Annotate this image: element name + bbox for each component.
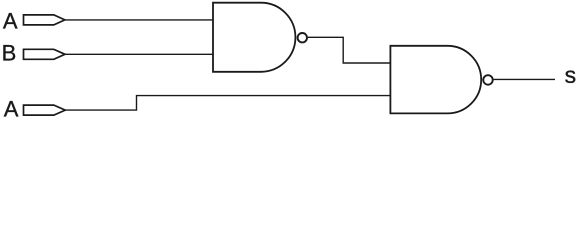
nand gate U1 inversion bubble: [298, 33, 307, 42]
input port A (top): [24, 15, 65, 25]
wire A (bottom) to U2 pin 2: [65, 96, 390, 111]
wire A to U1 pin 1: [65, 19, 214, 21]
input port B: [24, 49, 66, 59]
svg-text:B: B: [2, 40, 17, 65]
wire B to U1 pin 2: [65, 53, 214, 55]
nand gate U2 body: [390, 46, 481, 114]
wire U1 output to U2 pin 1: [308, 37, 390, 63]
svg-text:s: s: [565, 62, 577, 88]
svg-text:A: A: [4, 97, 19, 122]
wire U2 output to s: [494, 78, 555, 80]
input port A (bottom): [24, 105, 66, 115]
svg-text:A: A: [3, 8, 18, 33]
nand gate U2 inversion bubble: [483, 75, 493, 85]
nand gate U1 body: [213, 3, 295, 72]
